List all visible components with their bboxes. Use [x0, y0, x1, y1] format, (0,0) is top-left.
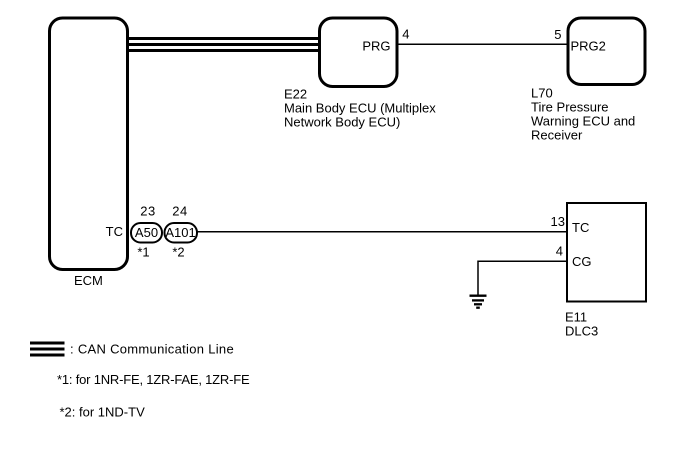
svg-text:*1: for 1NR-FE, 1ZR-FAE, 1ZR-F: *1: for 1NR-FE, 1ZR-FAE, 1ZR-FE [57, 372, 250, 387]
svg-text:4: 4 [402, 26, 409, 41]
svg-text:PRG: PRG [362, 39, 390, 54]
svg-text:: CAN Communication Line: : CAN Communication Line [70, 342, 234, 357]
ECM box [50, 18, 128, 270]
wire E22 pin4 to L70 pin5 [397, 43, 568, 45]
svg-text:DLC3: DLC3 [565, 324, 598, 339]
svg-text:TC: TC [572, 220, 589, 235]
svg-text:13: 13 [551, 214, 565, 229]
svg-text:*1: *1 [137, 245, 149, 260]
svg-text:5: 5 [554, 27, 561, 42]
E22 caption [284, 87, 436, 130]
L70 box [568, 18, 645, 85]
DLC3 box [567, 203, 646, 302]
wire CG to ground [478, 261, 567, 295]
svg-text:Tire Pressure: Tire Pressure [531, 100, 609, 115]
svg-text:Warning ECU and: Warning ECU and [531, 114, 635, 129]
svg-text:E11: E11 [565, 310, 587, 325]
svg-text:Receiver: Receiver [531, 128, 583, 143]
connector A50 [131, 223, 162, 243]
E22 Main Body ECU box [320, 18, 398, 87]
svg-text:ECM: ECM [74, 273, 103, 288]
svg-text:L70: L70 [531, 86, 553, 101]
svg-text:A50: A50 [135, 225, 158, 240]
svg-text:Network Body ECU): Network Body ECU) [284, 115, 400, 130]
svg-text:*2: for 1ND-TV: *2: for 1ND-TV [60, 405, 146, 420]
svg-text:TC: TC [106, 224, 123, 239]
svg-text:Main Body ECU (Multiplex: Main Body ECU (Multiplex [284, 101, 436, 116]
svg-text:24: 24 [172, 204, 187, 219]
legend CAN line swatch [30, 343, 65, 355]
ground [470, 296, 487, 308]
svg-text:*2: *2 [172, 245, 184, 260]
svg-text:CG: CG [572, 254, 592, 269]
CAN bus triple line (ECM to E22) [128, 39, 320, 51]
L70 caption [531, 86, 635, 143]
connector A101 [165, 223, 198, 243]
svg-text:PRG2: PRG2 [571, 39, 606, 54]
E11 DLC3 caption [565, 310, 598, 339]
svg-text:A101: A101 [165, 225, 195, 240]
svg-text:4: 4 [556, 244, 563, 259]
svg-text:23: 23 [140, 204, 155, 219]
svg-text:E22: E22 [284, 87, 307, 102]
wire A101 to DLC3 TC [197, 231, 568, 233]
